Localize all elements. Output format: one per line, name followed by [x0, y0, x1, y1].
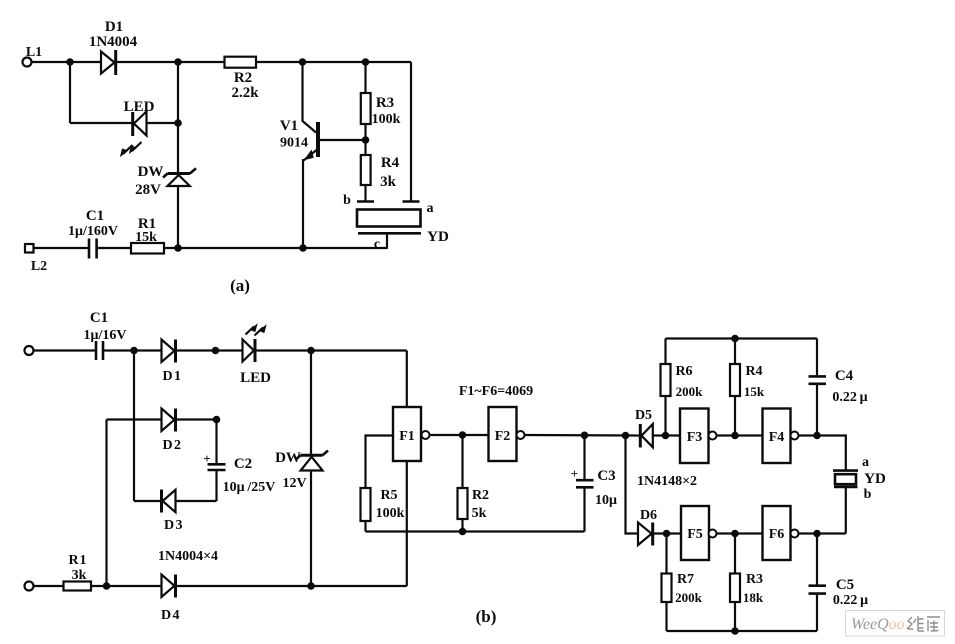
diode D1: [101, 50, 116, 75]
svg-text:10μ: 10μ: [595, 493, 617, 508]
wire R3 to node: [364, 124, 366, 155]
svg-text:R1: R1: [68, 553, 87, 568]
wire node to C2: [215, 420, 217, 465]
svg-text:L1: L1: [26, 45, 42, 60]
wire c lead: [386, 233, 388, 249]
wire D1 to node: [177, 349, 243, 351]
node R3 top rail: [362, 58, 370, 66]
svg-text:200k: 200k: [675, 590, 703, 605]
wire R3 column: [734, 534, 736, 632]
node DW bottom: [307, 582, 315, 590]
wire D3 row: [134, 500, 161, 502]
wire rail to R3: [364, 62, 366, 93]
resistor R2 (b): [458, 488, 468, 519]
watermark WeeQoo box: [846, 611, 945, 637]
diode D2: [162, 409, 176, 432]
resistor R1 (b): [64, 582, 92, 591]
resistor R1 (a): [131, 243, 164, 254]
wire C1 to node: [103, 349, 162, 351]
wire LED to corner: [256, 349, 407, 351]
node R7 F5 input: [663, 530, 671, 538]
svg-text:200k: 200k: [676, 384, 704, 399]
wire vertical rail top to DW: [177, 62, 179, 174]
svg-text:WeeQoo: WeeQoo: [851, 616, 905, 633]
wire node down left column: [133, 351, 135, 502]
wire terminal to R1: [34, 585, 64, 587]
wire R4 to electrode b: [364, 185, 366, 201]
wire terminal to C1: [34, 349, 96, 351]
wire DW to bottom rail: [177, 186, 179, 248]
wire F4 out to YD: [799, 436, 846, 471]
svg-text:a: a: [427, 201, 434, 216]
LED indicator (b): [243, 339, 256, 362]
resistor R5: [361, 488, 371, 521]
wire bottom rail right section: [667, 630, 818, 632]
wire top rail to electrode a: [410, 62, 412, 201]
electrode plate c: [358, 232, 421, 235]
zener diode DW 12V: [297, 451, 329, 471]
capacitor C5: [809, 586, 827, 594]
svg-text:b: b: [864, 487, 872, 502]
svg-text:1N4148×2: 1N4148×2: [637, 474, 697, 489]
wire D2 to C2 node: [177, 418, 217, 420]
node LED branch: [212, 347, 220, 355]
piezo sounder YD (b): [833, 471, 858, 487]
node D5 D6 branch: [622, 432, 630, 440]
svg-text:F2: F2: [495, 429, 511, 444]
electrode plate b: [357, 200, 374, 203]
terminal input top (b): [25, 346, 34, 355]
svg-text:5k: 5k: [472, 506, 487, 521]
node DW branch: [307, 347, 315, 355]
wire C4 column upper: [816, 339, 818, 377]
capacitor C3: [576, 480, 594, 487]
svg-text:L2: L2: [31, 259, 47, 274]
capacitor C2: [208, 464, 226, 470]
wire D4 to F1 bottom corner: [177, 585, 407, 587]
wire DW rail upper: [310, 351, 312, 457]
svg-text:C1: C1: [90, 310, 108, 326]
wire corner up to F1 bottom: [406, 461, 408, 586]
wire base to divider: [319, 139, 366, 141]
svg-text:R6: R6: [675, 364, 692, 379]
LED emission arrows: [246, 323, 267, 335]
node D2 C2: [213, 416, 221, 424]
svg-text:D5: D5: [635, 408, 652, 423]
svg-text:F6: F6: [769, 527, 785, 542]
node base divider: [362, 136, 370, 144]
wire YD b lead: [845, 487, 847, 534]
svg-text:R4: R4: [745, 364, 762, 379]
wire R6 column: [664, 339, 666, 436]
inverter gate F1: [393, 407, 421, 461]
zener diode DW 28V: [163, 168, 196, 186]
wire L2 to C1: [34, 247, 89, 249]
svg-text:F4: F4: [769, 430, 785, 445]
svg-text:(a): (a): [230, 276, 250, 295]
diode D3: [162, 490, 176, 513]
wire node to R2: [178, 61, 225, 63]
wire R2 to top-right rail: [256, 61, 411, 63]
wire feedback rail: [366, 530, 585, 532]
svg-text:1N4004: 1N4004: [89, 34, 138, 50]
resistor R3 (b): [730, 574, 740, 603]
F2 output bubble: [517, 431, 525, 439]
wire down to D6 row: [626, 436, 639, 534]
svg-text:a: a: [862, 455, 869, 470]
wire F1 output to F2: [430, 434, 489, 436]
node F1 out R2: [459, 431, 467, 439]
wire C2 to D3 row: [215, 470, 217, 501]
svg-text:D4: D4: [161, 608, 181, 623]
wire F1 input: [366, 436, 394, 489]
wire bottom rail: [164, 247, 387, 249]
svg-text:F5: F5: [687, 527, 703, 542]
wire R1 to D4: [91, 585, 162, 587]
LED emission arrows: [120, 142, 142, 157]
svg-text:+: +: [571, 466, 578, 481]
node R2 feedback: [459, 528, 467, 536]
node F4 out C4: [813, 432, 821, 440]
F4 output bubble: [791, 432, 799, 440]
svg-text:2.2k: 2.2k: [231, 85, 259, 101]
svg-text:DW: DW: [138, 164, 164, 180]
svg-text:1μ/160V: 1μ/160V: [68, 224, 118, 239]
resistor R3: [361, 93, 371, 124]
wire emitter to bottom rail: [302, 159, 304, 248]
wire C3 to feedback rail: [583, 487, 585, 531]
svg-text:YD: YD: [427, 229, 449, 245]
svg-text:F3: F3: [687, 430, 703, 445]
svg-text:3k: 3k: [380, 174, 397, 190]
svg-text:(b): (b): [476, 607, 497, 626]
F5 output bubble: [709, 530, 717, 538]
wire to LED cathode: [70, 122, 132, 124]
wire C5 column lower: [816, 594, 818, 631]
svg-text:C3: C3: [597, 468, 615, 484]
svg-text:0.22 μ: 0.22 μ: [833, 593, 868, 608]
inverter gate F6: [763, 506, 791, 560]
svg-text:R2: R2: [234, 70, 252, 86]
wire DW to bottom rail: [310, 471, 312, 587]
svg-text:F1~F6=4069: F1~F6=4069: [459, 384, 533, 399]
inverter gate F3: [680, 409, 709, 464]
svg-text:15k: 15k: [744, 384, 765, 399]
wire R5 to feedback rail: [364, 521, 366, 532]
node R4 top: [731, 335, 739, 343]
node F3 out R4: [731, 432, 739, 440]
svg-text:D3: D3: [164, 518, 184, 533]
svg-text:100k: 100k: [372, 112, 401, 127]
svg-text:R3: R3: [746, 572, 763, 587]
node on top rail above DW: [174, 58, 182, 66]
svg-text:b: b: [343, 193, 351, 208]
wire R2 to feedback rail: [461, 519, 463, 532]
diode D5: [640, 424, 653, 448]
wire node to R2: [461, 435, 463, 488]
svg-text:F1: F1: [399, 429, 415, 444]
node C3: [581, 432, 589, 440]
svg-text:D1: D1: [105, 19, 123, 35]
svg-text:3k: 3k: [72, 568, 87, 583]
LED indicator (a): [133, 112, 147, 137]
node LED to DW rail: [174, 119, 182, 127]
svg-text:V1: V1: [280, 118, 298, 134]
svg-text:1N4004×4: 1N4004×4: [158, 549, 218, 564]
resistor R6: [661, 364, 671, 396]
diode D1 (b): [162, 340, 176, 363]
svg-text:C1: C1: [86, 208, 104, 224]
svg-text:D6: D6: [640, 508, 657, 523]
svg-text:R4: R4: [381, 155, 400, 171]
svg-text:DW: DW: [275, 450, 301, 466]
electrode plate a: [403, 200, 420, 203]
wire D6 to F5: [654, 532, 681, 534]
wire F6 out to YD b lead: [799, 532, 846, 534]
node collector branch on top rail: [299, 58, 307, 66]
wire D2 row left column: [105, 420, 107, 587]
node junction at top-left (LED branch): [66, 58, 74, 66]
svg-text:18k: 18k: [743, 590, 764, 605]
resistor R2: [225, 57, 257, 68]
svg-text:12V: 12V: [282, 476, 306, 491]
wire node to C3: [583, 435, 585, 480]
terminal L1: [23, 58, 32, 67]
wire D1 cathode to node: [117, 61, 178, 63]
node DW at bottom rail: [174, 244, 182, 252]
svg-text:1μ/16V: 1μ/16V: [84, 328, 127, 343]
svg-text:9014: 9014: [280, 136, 308, 151]
svg-text:28V: 28V: [135, 182, 161, 198]
wire top rail right section: [666, 337, 818, 339]
wire D2 row: [107, 418, 162, 420]
F6 output bubble: [791, 530, 799, 538]
svg-text:100k: 100k: [376, 506, 405, 521]
wire corner down to F1 top: [406, 351, 408, 408]
svg-text:R7: R7: [677, 572, 694, 587]
capacitor C1 (a): [89, 239, 97, 259]
F1 output bubble: [422, 431, 430, 439]
wire L1 to D1 anode: [32, 61, 102, 63]
wire D5 to F3: [653, 434, 680, 436]
wire R4 column: [734, 339, 736, 436]
diode D4: [162, 575, 176, 598]
transistor V1 9014: [304, 122, 319, 161]
resistor R4 (b): [730, 364, 740, 396]
resistor R4: [361, 155, 371, 185]
wire R7 column: [665, 534, 667, 632]
wire collector: [303, 62, 317, 133]
svg-text:C5: C5: [836, 577, 854, 593]
wire C1 to R1: [97, 247, 131, 249]
wire LED anode to vertical rail: [147, 122, 179, 124]
svg-text:0.22 μ: 0.22 μ: [832, 390, 867, 405]
node R6 F3 input: [662, 432, 670, 440]
svg-text:C4: C4: [835, 368, 854, 384]
piezo element YD (a): [357, 210, 421, 227]
wire F2 output to D5: [525, 434, 640, 437]
svg-text:R5: R5: [380, 488, 397, 503]
svg-text:C2: C2: [234, 456, 252, 472]
node F5 out R3: [731, 530, 739, 538]
wire LED branch down: [69, 62, 71, 123]
svg-text:LED: LED: [240, 370, 271, 386]
svg-text:D1: D1: [162, 369, 182, 384]
capacitor C4: [809, 376, 827, 383]
svg-text:15k: 15k: [135, 230, 157, 245]
diode D6: [638, 523, 653, 546]
inverter gate F4: [763, 409, 791, 464]
svg-text:D2: D2: [162, 438, 182, 453]
wire F5 to F6: [717, 532, 763, 534]
svg-text:R3: R3: [376, 95, 394, 111]
terminal L2: [25, 244, 34, 253]
terminal input bottom (b): [25, 582, 34, 591]
wire C4 column lower: [816, 384, 818, 436]
svg-text:c: c: [374, 237, 380, 252]
node emitter at bottom rail: [299, 244, 307, 252]
inverter gate F5: [681, 506, 709, 560]
wire F3 to F4: [717, 434, 763, 436]
capacitor C1 (b): [96, 341, 103, 360]
svg-text:LED: LED: [124, 99, 155, 115]
svg-text:10μ /25V: 10μ /25V: [223, 480, 276, 495]
F3 output bubble: [709, 432, 717, 440]
inverter gate F2: [489, 407, 517, 461]
node R3 bottom: [731, 627, 739, 635]
node F6 out C5: [813, 530, 821, 538]
node after C1: [130, 347, 138, 355]
resistor R7: [662, 574, 672, 603]
wire C5 column upper: [816, 534, 818, 586]
svg-text:YD: YD: [864, 471, 886, 487]
wire D3 to C2 bottom: [176, 500, 217, 502]
node left column bottom: [103, 582, 111, 590]
svg-text:R2: R2: [472, 488, 489, 503]
